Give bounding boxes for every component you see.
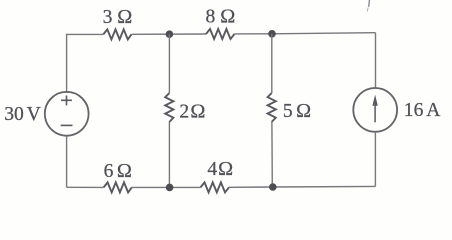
svg-text:Ω: Ω xyxy=(117,160,132,182)
wire right upper xyxy=(375,33,377,88)
wire top-left corner segment xyxy=(67,34,104,92)
svg-text:Ω: Ω xyxy=(220,5,235,27)
wire right lower xyxy=(374,132,376,187)
resistor R4 5ohm zigzag xyxy=(268,93,276,122)
resistor R1 3ohm zigzag xyxy=(103,29,131,39)
wire branch2 lower xyxy=(168,122,170,187)
arrow shaft xyxy=(374,102,376,122)
node C dot xyxy=(166,184,174,192)
svg-text:6: 6 xyxy=(104,161,114,182)
wire branch2 upper xyxy=(168,34,170,93)
wire left lower xyxy=(66,136,68,188)
current source I1 circle xyxy=(353,88,397,132)
voltage source V1 circle xyxy=(45,92,89,136)
svg-text:Ω: Ω xyxy=(296,100,311,122)
scan artifact tail xyxy=(366,8,369,12)
resistor R3 2ohm zigzag xyxy=(165,93,173,122)
arrow head xyxy=(372,95,377,106)
scan artifact mark top xyxy=(368,0,371,7)
wire top middle segment xyxy=(132,33,207,35)
svg-text:5: 5 xyxy=(283,101,293,122)
svg-text:4: 4 xyxy=(207,159,217,180)
svg-text:2: 2 xyxy=(179,102,189,123)
node B dot xyxy=(268,30,276,38)
resistor R6 4ohm zigzag xyxy=(201,182,230,192)
svg-text:Ω: Ω xyxy=(117,6,132,28)
wire bottom middle segment xyxy=(132,186,201,188)
resistor R2 8ohm zigzag xyxy=(206,29,235,39)
svg-text:A: A xyxy=(426,100,440,121)
resistor R5 6ohm zigzag xyxy=(104,182,132,192)
wire branch3 upper xyxy=(271,34,273,93)
svg-text:Ω: Ω xyxy=(218,158,233,180)
plus sign xyxy=(61,96,72,106)
svg-text:30: 30 xyxy=(4,104,24,125)
minus sign xyxy=(61,124,73,126)
svg-text:Ω: Ω xyxy=(190,101,205,123)
wire bottom right segment xyxy=(229,185,376,188)
svg-text:16: 16 xyxy=(404,100,424,121)
svg-text:V: V xyxy=(27,104,41,125)
svg-text:8: 8 xyxy=(206,6,216,27)
node D dot xyxy=(269,183,277,191)
wire branch3 lower xyxy=(271,122,273,187)
wire bottom left segment xyxy=(67,186,104,188)
wire top right segment xyxy=(235,33,376,34)
svg-text:3: 3 xyxy=(103,7,113,28)
node A dot xyxy=(166,30,174,38)
